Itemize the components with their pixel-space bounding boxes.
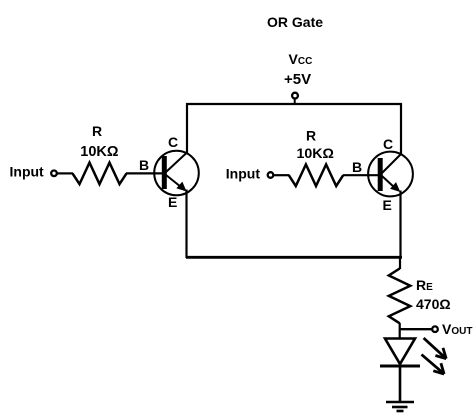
wire right collector to rail <box>400 103 402 154</box>
LED light arrow 2 <box>422 355 445 375</box>
wire Vcc stem <box>294 99 296 105</box>
svg-text:B: B <box>352 159 362 175</box>
wire left collector to rail <box>186 103 188 153</box>
Vcc terminal <box>292 93 298 99</box>
Q2 emitter arrowhead <box>392 184 399 191</box>
LED cathode bar <box>380 365 420 368</box>
svg-text:E: E <box>383 197 392 213</box>
terminal Vout <box>432 326 438 332</box>
terminal input left <box>51 171 57 177</box>
wire resistor to base (left) <box>126 172 162 174</box>
transistor Q2 (right) <box>368 152 413 197</box>
wire resistor to base (right) <box>343 174 378 176</box>
LED D1 <box>380 339 420 367</box>
svg-text:C: C <box>383 136 393 152</box>
resistor R1 10K (left) <box>73 163 127 185</box>
svg-text:470Ω: 470Ω <box>416 296 451 312</box>
Q1 body circle <box>154 151 199 196</box>
wire left emitter down <box>185 190 187 259</box>
Q1 emitter line <box>166 175 181 187</box>
ground <box>386 402 414 411</box>
Q2 emitter line <box>382 176 395 188</box>
LED anode triangle <box>385 339 415 365</box>
svg-text:10KΩ: 10KΩ <box>80 144 119 160</box>
wire input right to resistor <box>274 174 290 176</box>
Q1 emitter arrowhead <box>178 183 185 190</box>
svg-text:E: E <box>168 194 177 210</box>
svg-text:B: B <box>139 157 149 173</box>
resistor RE 470 <box>389 269 411 324</box>
wire emitter junction down to RE <box>399 257 401 269</box>
svg-text:10KΩ: 10KΩ <box>297 146 334 162</box>
resistor R2 10K (right) <box>289 164 343 186</box>
wire right emitter down <box>399 191 401 259</box>
wire top rail <box>186 103 402 105</box>
svg-text:C: C <box>168 134 178 150</box>
wire bottom rail <box>186 256 402 259</box>
wire to Vout terminal <box>400 328 433 330</box>
svg-text:OR Gate: OR Gate <box>267 14 323 30</box>
svg-text:Input: Input <box>10 164 45 180</box>
transistor Q1 (left) <box>154 151 199 196</box>
svg-text:+5V: +5V <box>284 71 311 88</box>
Q2 body circle <box>368 152 413 197</box>
svg-text:R: R <box>92 123 102 139</box>
Q1 base bar <box>162 156 167 189</box>
Q2 collector line <box>382 154 402 174</box>
terminal input right <box>268 172 274 178</box>
Q2 base bar <box>378 158 383 191</box>
Q1 collector line <box>166 152 188 172</box>
wire input left to resistor <box>57 172 73 174</box>
wire LED to ground <box>399 366 402 402</box>
svg-text:Input: Input <box>226 166 261 182</box>
wire RE to LED <box>399 323 401 339</box>
LED light arrow 1 <box>424 338 447 359</box>
svg-text:R: R <box>306 128 316 144</box>
